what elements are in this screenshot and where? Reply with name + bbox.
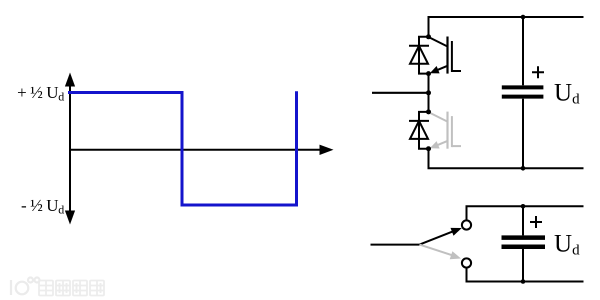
bottom rail (switch circuit) (467, 268, 584, 282)
switch arm to bottom contact (gray) (420, 245, 453, 256)
capacitor Cd plates (switch circuit) (502, 235, 546, 240)
wire: output line (372, 92, 429, 94)
bottom rail (429, 149, 584, 169)
svg-text:- ½ Ud: - ½ Ud (21, 196, 64, 217)
switch terminal (bottom contact) (462, 258, 471, 267)
top rail (429, 17, 584, 37)
IGBT V2 emitter arrowhead (gray) (430, 141, 440, 148)
capacitor Cd (switch circuit) leads (522, 206, 524, 235)
IGBT V2 (inactive, gray) (429, 112, 462, 149)
vertical axis (69, 80, 71, 216)
plus sign (bottom capacitor) (530, 216, 542, 228)
watermark text blobs (39, 281, 104, 296)
horizontal axis arrowhead (320, 145, 334, 155)
node: bottom rail / capacitor junction (521, 166, 526, 171)
wire: output node to V2 collector (428, 93, 430, 112)
watermark logo (11, 278, 40, 296)
capacitor Cd (top circuit) leads (522, 17, 524, 85)
node: emitter of V2 (426, 146, 431, 151)
wire: switch input (371, 244, 420, 246)
diode VD2 (409, 112, 429, 149)
horizontal axis (70, 149, 322, 151)
node: bottom rail / capacitor junction (521, 279, 526, 284)
top rail (switch circuit) (467, 206, 584, 220)
svg-text:+ ½ Ud: + ½ Ud (17, 83, 64, 104)
capacitor Cd plates (502, 85, 544, 89)
node: emitter of V1 (426, 71, 431, 76)
blue square wave (68, 91, 297, 205)
switch arm to top contact (active) (420, 232, 453, 245)
node: output (426, 90, 431, 95)
node: top rail / capacitor junction (521, 15, 526, 20)
node: top rail / capacitor junction (521, 204, 526, 209)
node: collector of V1 (426, 34, 431, 39)
switch terminal (top contact) (462, 220, 471, 229)
plus sign (top capacitor) (532, 66, 544, 78)
node: collector of V2 (426, 109, 431, 114)
IGBT V1 emitter arrowhead (430, 66, 440, 73)
wire: V1 emitter to output node (428, 74, 430, 93)
vertical axis top arrowhead (65, 73, 75, 87)
IGBT V1 (429, 37, 462, 74)
diode VD1 (409, 37, 429, 74)
vertical axis bottom arrowhead (65, 211, 75, 225)
